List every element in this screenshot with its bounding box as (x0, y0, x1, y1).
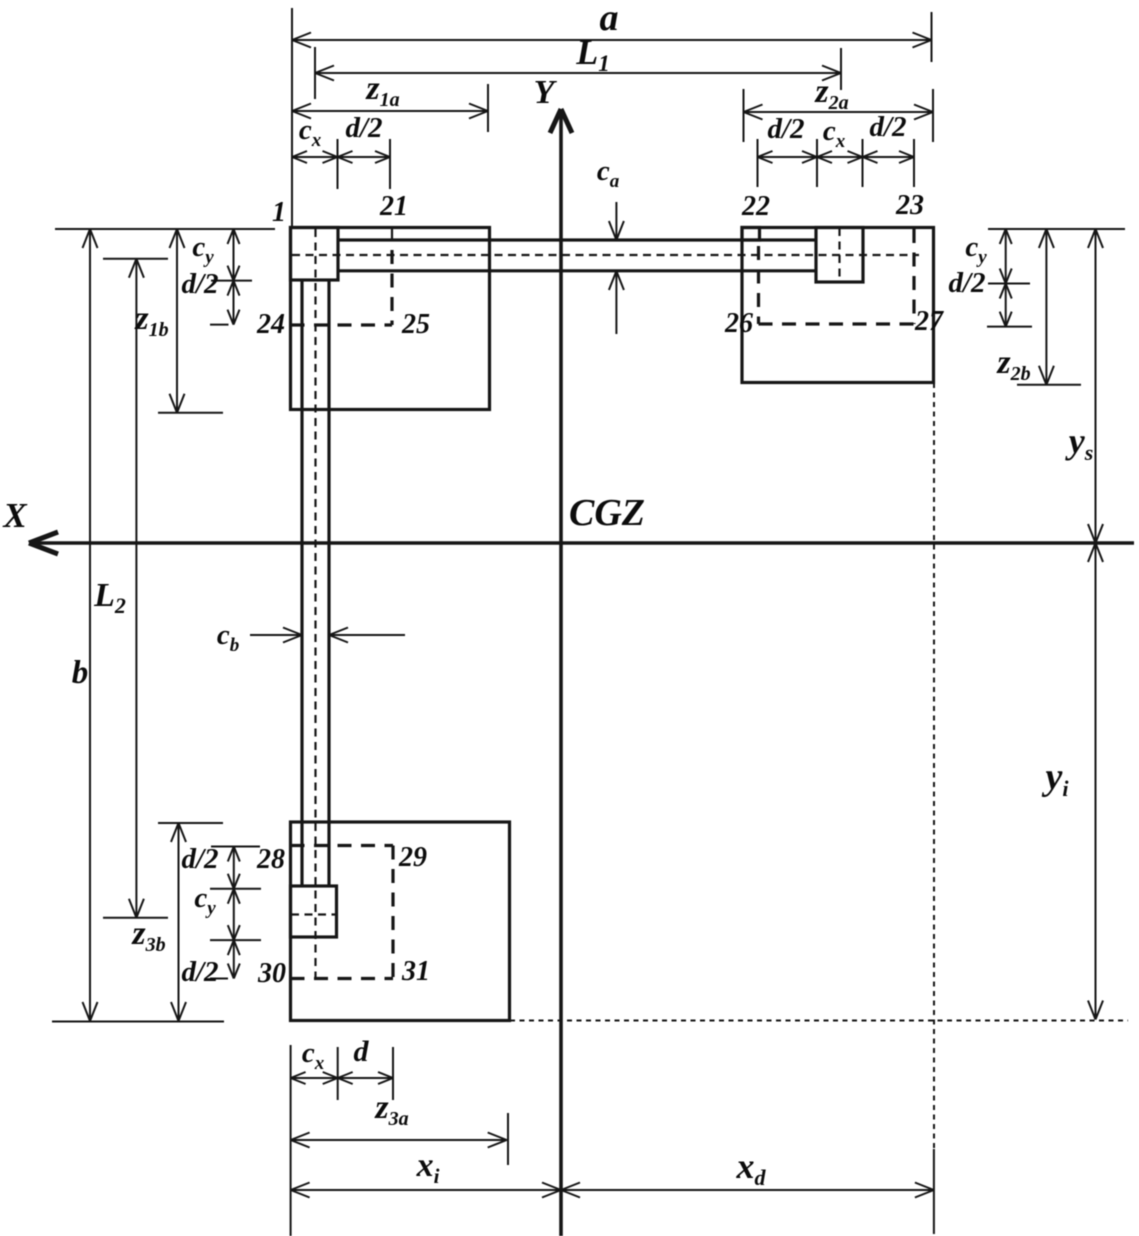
svg-text:d/2: d/2 (345, 112, 382, 144)
svg-text:d/2: d/2 (767, 113, 804, 145)
svg-text:d/2: d/2 (948, 267, 985, 299)
svg-text:X: X (2, 496, 28, 535)
svg-text:22: 22 (741, 191, 770, 222)
svg-text:27: 27 (914, 306, 944, 337)
svg-text:d/2: d/2 (869, 111, 906, 143)
svg-text:d/2: d/2 (181, 268, 218, 300)
svg-text:31: 31 (401, 956, 430, 987)
svg-text:28: 28 (256, 844, 285, 875)
svg-text:24: 24 (256, 309, 285, 340)
svg-text:d: d (354, 1035, 370, 1068)
svg-text:b: b (72, 655, 89, 691)
svg-text:1: 1 (272, 197, 286, 228)
svg-text:29: 29 (398, 842, 427, 873)
svg-text:25: 25 (401, 309, 430, 340)
svg-text:21: 21 (379, 191, 408, 222)
svg-text:Y: Y (534, 74, 558, 111)
svg-text:30: 30 (257, 958, 286, 989)
svg-text:d/2: d/2 (181, 843, 218, 875)
svg-text:CGZ: CGZ (569, 492, 645, 534)
svg-text:23: 23 (895, 190, 924, 221)
svg-text:26: 26 (724, 308, 753, 339)
svg-text:a: a (600, 0, 619, 39)
svg-text:d/2: d/2 (181, 956, 218, 988)
